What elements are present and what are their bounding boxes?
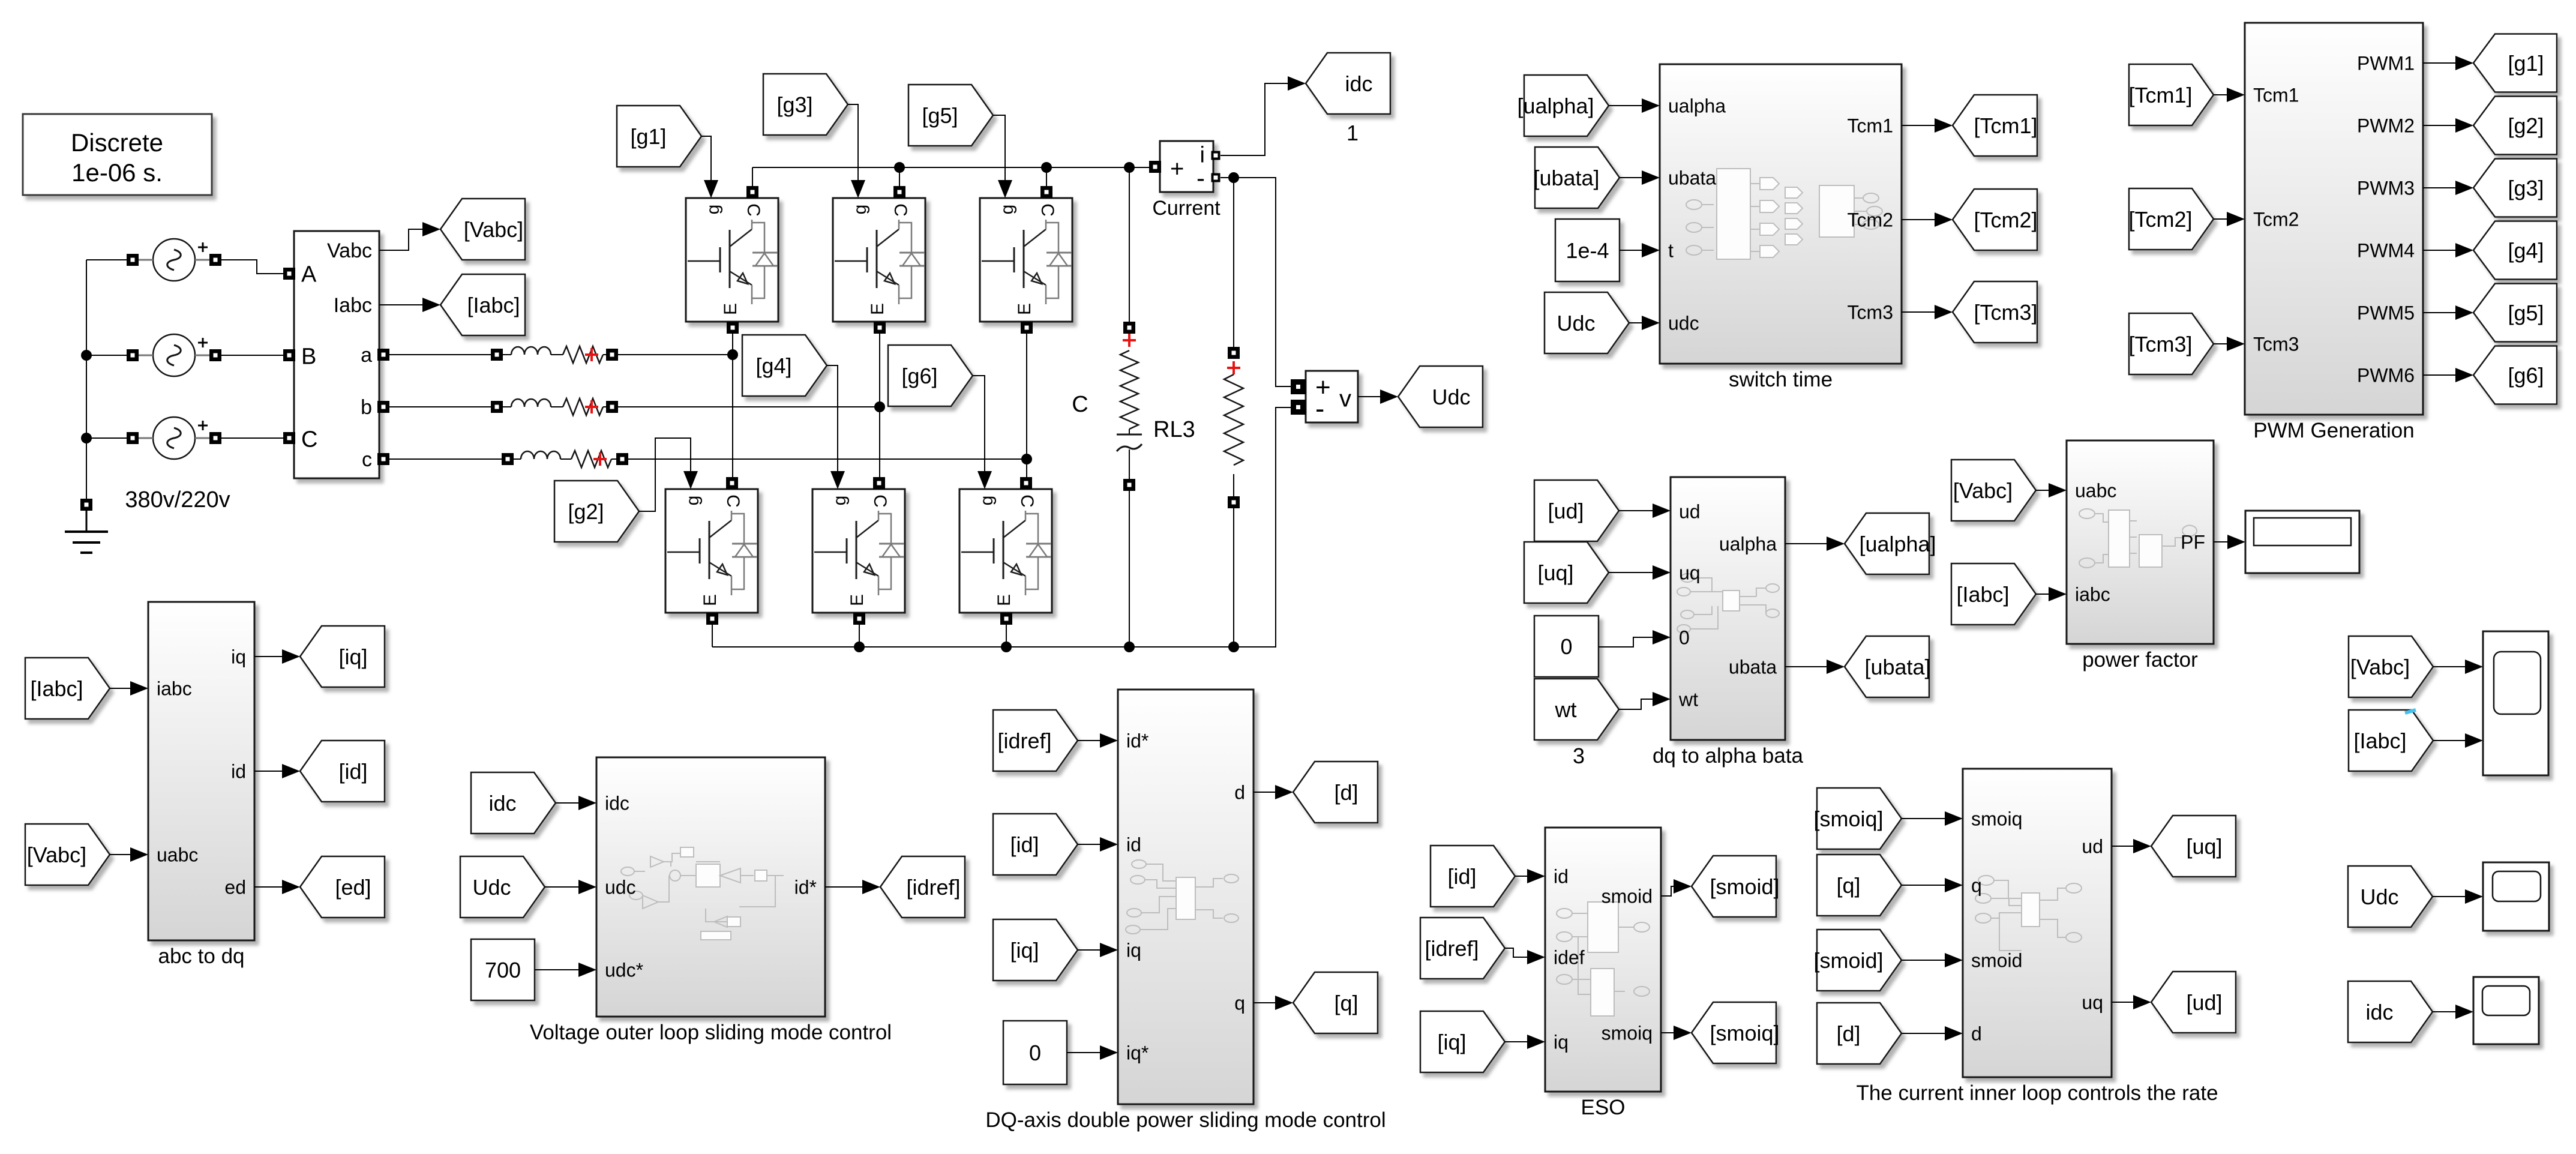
svg-text:1: 1: [1347, 121, 1359, 145]
wire block-c to RL: [388, 458, 503, 460]
svg-text:[Tcm2]: [Tcm2]: [2128, 207, 2192, 232]
goto tag [g3]: [2473, 159, 2557, 217]
svg-text:iq*: iq*: [1126, 1042, 1148, 1064]
svg-text:PWM6: PWM6: [2357, 365, 2415, 386]
svg-text:d: d: [1234, 782, 1245, 804]
current measurement block: [1149, 141, 1220, 220]
svg-text:a: a: [361, 344, 372, 367]
node neutral-B: [81, 350, 92, 361]
goto tag [q]: [1293, 972, 1378, 1033]
from tag [g2]: [554, 481, 639, 542]
wire smoid out: [1661, 879, 1692, 896]
svg-text:[Vabc]: [Vabc]: [2350, 655, 2410, 679]
svg-text:PWM3: PWM3: [2357, 178, 2415, 199]
svg-text:[id]: [id]: [1010, 832, 1039, 857]
node phase-b leg2: [874, 401, 885, 412]
load resistor branch: [1224, 178, 1243, 647]
svg-text:v: v: [1339, 385, 1351, 412]
wire idref out: [825, 880, 880, 894]
wire id to eso: [1515, 869, 1545, 883]
wire DC- bottom rail: [712, 407, 1291, 647]
svg-text:q: q: [1234, 993, 1245, 1014]
svg-text:380v/220v: 380v/220v: [125, 487, 230, 512]
wire Vabc to pf: [2036, 483, 2067, 497]
AC voltage source Vb: [127, 334, 221, 376]
svg-text:Tcm3: Tcm3: [2253, 334, 2299, 355]
svg-text:id: id: [231, 761, 246, 783]
wire RL-b to leg2: [617, 406, 880, 407]
wire smoiq out: [1661, 1026, 1692, 1040]
wire g6 gate: [973, 376, 992, 489]
svg-text:PWM Generation: PWM Generation: [2253, 419, 2414, 442]
svg-text:The current inner loop control: The current inner loop controls the rate: [1856, 1081, 2218, 1105]
svg-text:Udc: Udc: [472, 875, 511, 900]
svg-text:C: C: [1072, 392, 1088, 417]
wire Tcm3 to PWM: [2214, 337, 2245, 351]
wire Tcm3 out: [1902, 305, 1953, 319]
svg-text:0: 0: [1029, 1041, 1041, 1065]
svg-text:[Iabc]: [Iabc]: [1956, 582, 2009, 607]
from tag [ubata] (switch time): [1533, 147, 1620, 208]
svg-text:3: 3: [1573, 744, 1585, 768]
svg-text:idc: idc: [1345, 71, 1372, 96]
node minus-load: [1228, 172, 1239, 183]
wire g4 gate: [827, 365, 845, 489]
wire PWM4 out: [2423, 243, 2473, 257]
constant 700: [471, 939, 535, 1000]
DQ-axis port labels: [1126, 730, 1245, 1064]
svg-text:wt: wt: [1678, 689, 1698, 711]
goto tag [Tcm1]: [1953, 95, 2038, 156]
from tag Udc (switch time): [1545, 292, 1629, 353]
wire Udc to vloop: [545, 880, 596, 894]
wire wt to port: [1619, 692, 1671, 709]
svg-text:d: d: [1971, 1023, 1982, 1045]
wire Tcm2 out: [1902, 212, 1953, 227]
svg-text:[Iabc]: [Iabc]: [467, 293, 520, 317]
svg-text:[ualpha]: [ualpha]: [1859, 532, 1936, 556]
svg-text:C: C: [723, 494, 743, 508]
from tag [ud]: [1534, 480, 1619, 541]
svg-text:[Tcm3]: [Tcm3]: [2128, 332, 2192, 356]
from tag [g6]: [888, 345, 973, 406]
subsystem abc to dq: [148, 602, 254, 968]
svg-text:Discrete: Discrete: [71, 128, 163, 157]
svg-text:uabc: uabc: [157, 844, 198, 866]
wire current i to idc goto: [1220, 76, 1306, 155]
from tag [Iabc] (pf): [1951, 563, 2036, 625]
svg-text:ud: ud: [1679, 501, 1701, 523]
wire ud in: [1619, 503, 1671, 518]
node rail-leg3: [1041, 162, 1052, 173]
svg-text:-: -: [1315, 393, 1324, 424]
from tag [ualpha] (switch time): [1517, 75, 1609, 136]
svg-text:ESO: ESO: [1581, 1096, 1626, 1119]
svg-text:g: g: [703, 205, 723, 215]
from tag [smoiq] (il): [1813, 788, 1902, 849]
svg-text:B: B: [301, 344, 316, 370]
wire iq to eso: [1505, 1035, 1545, 1049]
svg-text:A: A: [301, 262, 317, 287]
dq2ab port labels: [1678, 501, 1777, 711]
svg-text:0: 0: [1560, 634, 1572, 659]
wire Tcm1 to PWM: [2214, 88, 2245, 102]
from tag [smoid] (il): [1813, 930, 1902, 991]
svg-text:Tcm2: Tcm2: [1848, 209, 1893, 231]
label C: [1072, 392, 1088, 417]
wire idref to dq: [1078, 733, 1118, 748]
wire RL-a to leg1: [617, 354, 733, 355]
svg-text:wt: wt: [1555, 697, 1577, 722]
wire block-b to RL: [388, 406, 492, 407]
svg-text:[g3]: [g3]: [776, 92, 812, 117]
svg-text:ud: ud: [2082, 836, 2103, 858]
abc2dq port labels: [157, 646, 246, 898]
goto tag [id]: [300, 741, 385, 802]
goto tag Udc: [1398, 366, 1483, 427]
svg-text:E: E: [994, 594, 1014, 606]
svg-text:[idref]: [idref]: [997, 729, 1051, 753]
goto tag [ualpha]: [1845, 513, 1936, 574]
from tag [Iabc] (scope): [2349, 710, 2433, 771]
wire smoid to il: [1902, 953, 1963, 967]
ground: [65, 499, 108, 553]
from tag idc (scope): [2348, 981, 2433, 1042]
svg-text:[smoid]: [smoid]: [1813, 948, 1883, 973]
subsystem voltage outer loop: [530, 757, 892, 1044]
svg-text:[smoiq]: [smoiq]: [1813, 807, 1883, 831]
svg-text:C: C: [301, 427, 317, 452]
svg-text:[Tcm2]: [Tcm2]: [1974, 208, 2037, 232]
svg-text:[Vabc]: [Vabc]: [27, 843, 86, 867]
svg-text:PWM4: PWM4: [2357, 240, 2415, 262]
svg-text:dq to alpha bata: dq to alpha bata: [1653, 744, 1804, 768]
svg-text:ed: ed: [224, 877, 246, 898]
svg-text:Voltage outer loop sliding mod: Voltage outer loop sliding mode control: [530, 1021, 892, 1044]
svg-text:id: id: [1554, 866, 1569, 888]
goto tag [g5]: [2473, 284, 2557, 342]
IGBT/Diode Q4: [812, 477, 905, 625]
svg-text:idc: idc: [488, 791, 516, 816]
goto tag [Iabc]: [440, 274, 525, 335]
from tag [Iabc] (abc2dq): [25, 658, 110, 719]
svg-text:[ualpha]: [ualpha]: [1517, 94, 1594, 118]
wire 700 to vloop: [535, 963, 596, 977]
goto tag [idref]: [880, 856, 965, 918]
svg-text:[q]: [q]: [1334, 991, 1358, 1015]
from tag [d] (il): [1817, 1003, 1902, 1064]
svg-text:[Vabc]: [Vabc]: [464, 217, 523, 242]
wire Iabc to goto: [379, 298, 440, 312]
goto tag idc: [1306, 53, 1390, 145]
svg-text:[ud]: [ud]: [1548, 499, 1584, 523]
from tag idc (vloop): [471, 772, 556, 834]
svg-text:uabc: uabc: [2075, 480, 2116, 502]
ESO inner sketch: [1557, 902, 1650, 1016]
constant 1e-4: [1555, 219, 1620, 281]
wire udc in: [1629, 316, 1660, 330]
svg-text:t: t: [1668, 240, 1674, 262]
from tag [id] (eso): [1431, 846, 1515, 907]
node neutral-C: [81, 433, 92, 443]
from tag [idref] (dq): [993, 710, 1078, 771]
wire ubata out: [1785, 660, 1845, 674]
node bottomrail-RL3: [1124, 642, 1135, 652]
goto tag [uq] (il out): [2151, 816, 2236, 877]
svg-text:iabc: iabc: [157, 678, 192, 700]
goto tag [ed]: [300, 856, 385, 918]
svg-text:switch time: switch time: [1729, 368, 1833, 391]
wire leg2 vertical: [880, 167, 899, 478]
svg-text:C: C: [743, 203, 763, 217]
svg-text:Tcm2: Tcm2: [2253, 209, 2299, 230]
svg-text:[g1]: [g1]: [630, 124, 666, 149]
wire v to Udc goto: [1358, 389, 1398, 404]
svg-text:[uq]: [uq]: [1537, 560, 1573, 585]
svg-text:Current: Current: [1152, 197, 1220, 220]
from tag [Vabc] (abc2dq): [25, 824, 110, 885]
goto tag [Tcm2]: [1953, 189, 2038, 250]
wire neutral bus: [86, 260, 128, 500]
goto tag [d]: [1293, 762, 1378, 823]
svg-text:power factor: power factor: [2082, 648, 2198, 672]
svg-text:0: 0: [1679, 627, 1690, 649]
node phase-a leg1: [727, 349, 738, 360]
wire iq out: [254, 649, 300, 664]
wire PWM3 out: [2423, 181, 2473, 195]
wire q to il: [1902, 878, 1963, 892]
svg-text:smoid: smoid: [1971, 950, 2022, 972]
svg-text:[ubata]: [ubata]: [1864, 655, 1930, 679]
svg-text:udc: udc: [605, 877, 636, 898]
svg-text:idc: idc: [605, 793, 629, 814]
wire id out: [254, 764, 300, 778]
inner loop port labels: [1971, 808, 2103, 1045]
wire Iabc to pf: [2036, 587, 2067, 601]
wire current minus: [1220, 178, 1296, 386]
series RLC branch RL3: [1117, 167, 1142, 647]
svg-text:E: E: [868, 303, 887, 315]
goto tag [smoid]: [1692, 856, 1780, 917]
wire q out: [1253, 996, 1293, 1010]
svg-text:DQ-axis double power sliding m: DQ-axis double power sliding mode contro…: [985, 1108, 1386, 1132]
node rail-leg2: [894, 162, 905, 173]
svg-text:[idref]: [idref]: [906, 875, 960, 900]
wire Iabc to abc2dq: [110, 681, 148, 696]
svg-text:udc*: udc*: [605, 960, 643, 981]
goto tag [smoiq]: [1692, 1002, 1780, 1063]
svg-text:smoiq: smoiq: [1602, 1023, 1653, 1044]
svg-text:-: -: [1196, 164, 1205, 192]
wire ualpha out: [1785, 536, 1845, 551]
svg-text:E: E: [700, 594, 720, 606]
from tag [id] (dq): [993, 814, 1078, 875]
svg-text:C: C: [1037, 203, 1057, 217]
svg-text:uq: uq: [2082, 992, 2103, 1014]
voltage outer port labels: [605, 793, 817, 981]
from tag [iq] (eso): [1420, 1011, 1505, 1072]
svg-text:[g4]: [g4]: [2508, 238, 2544, 263]
wire 1e-4 to t: [1620, 243, 1660, 257]
from tag [idref] (eso): [1420, 918, 1505, 979]
wire Vc to port C: [219, 437, 284, 439]
wire d to il: [1902, 1026, 1963, 1041]
svg-text:[g6]: [g6]: [901, 364, 937, 388]
svg-text:[smoiq]: [smoiq]: [1710, 1021, 1779, 1045]
svg-text:Udc: Udc: [1557, 311, 1595, 335]
wire Vabc to scope: [2433, 660, 2483, 674]
wire PWM1 out: [2423, 56, 2473, 70]
wire ud out: [2112, 839, 2151, 853]
svg-text:[g3]: [g3]: [2508, 176, 2544, 200]
svg-text:C: C: [870, 494, 890, 508]
wire PWM6 out: [2423, 368, 2473, 382]
wire smoiq to il: [1902, 811, 1963, 826]
svg-text:[Iabc]: [Iabc]: [2353, 729, 2406, 753]
wire uq out: [2112, 995, 2151, 1009]
label 380v/220v: [125, 487, 230, 512]
wire block-a to RL: [388, 354, 492, 355]
wire DC+ top rail: [752, 167, 1150, 168]
svg-text:id*: id*: [794, 877, 817, 898]
svg-text:[g1]: [g1]: [2508, 51, 2544, 76]
power factor port labels: [2075, 480, 2205, 606]
svg-text:ubata: ubata: [1668, 167, 1716, 189]
svg-text:E: E: [1015, 303, 1034, 315]
from tag [q] (il): [1817, 855, 1902, 916]
svg-text:abc to dq: abc to dq: [158, 945, 245, 968]
power factor inner sketch: [2079, 509, 2197, 568]
subsystem current inner loop: [1856, 769, 2218, 1105]
wire RL-c to leg3: [627, 458, 1027, 460]
wire id to dq: [1078, 837, 1118, 852]
wire uq in: [1609, 565, 1671, 580]
svg-text:Tcm1: Tcm1: [2253, 85, 2299, 106]
svg-text:[g2]: [g2]: [2508, 113, 2544, 138]
from tag [Vabc] (pf): [1951, 460, 2036, 521]
wire leg1 vertical: [733, 167, 752, 478]
svg-text:1e-4: 1e-4: [1566, 238, 1609, 263]
scope Udc: [2483, 862, 2549, 931]
DQ-axis inner sketch: [1126, 860, 1238, 934]
svg-text:[g2]: [g2]: [568, 499, 604, 524]
scope Vabc-Iabc: [2483, 631, 2548, 775]
svg-text:c: c: [362, 448, 372, 471]
svg-text:Iabc: Iabc: [334, 294, 372, 317]
goto tag [ubata]: [1845, 636, 1931, 697]
svg-text:[Iabc]: [Iabc]: [30, 676, 83, 701]
svg-text:[iq]: [iq]: [338, 645, 367, 669]
wire E legs to bottom rail: [712, 624, 1006, 647]
from tag [g3]: [763, 74, 848, 135]
subsystem switch time: [1660, 64, 1902, 391]
series RL branch phase b: [491, 398, 618, 415]
svg-text:[Tcm3]: [Tcm3]: [1974, 300, 2037, 325]
svg-text:q: q: [1971, 875, 1982, 897]
wire Tcm1 out: [1902, 118, 1953, 133]
svg-text:id*: id*: [1126, 730, 1148, 752]
goto tag [iq]: [300, 626, 385, 687]
svg-text:[iq]: [iq]: [1437, 1030, 1466, 1054]
svg-text:iq: iq: [1554, 1032, 1569, 1053]
svg-text:g: g: [683, 496, 703, 506]
wire Tcm2 to PWM: [2214, 212, 2245, 226]
svg-text:iq: iq: [1126, 940, 1141, 961]
svg-text:[d]: [d]: [1836, 1021, 1860, 1046]
IGBT/Diode Q2: [665, 477, 758, 625]
svg-text:iabc: iabc: [2075, 584, 2110, 606]
from tag Udc (vloop): [460, 856, 545, 918]
svg-text:[g5]: [g5]: [2508, 301, 2544, 325]
svg-text:[g5]: [g5]: [922, 103, 958, 128]
wire Vabc to goto: [379, 222, 440, 250]
constant 0 (dq2ab): [1534, 616, 1599, 677]
svg-text:g: g: [830, 496, 850, 506]
goto tag [g6]: [2473, 346, 2557, 404]
subsystem power factor: [2067, 440, 2214, 672]
from tag [Tcm3] (PWM): [2128, 313, 2214, 374]
svg-text:Vabc: Vabc: [327, 239, 372, 262]
switch time port labels: [1668, 95, 1893, 334]
wire idc to scope: [2433, 1005, 2473, 1019]
svg-text:smoiq: smoiq: [1971, 808, 2022, 830]
svg-text:RL3: RL3: [1153, 417, 1195, 442]
AC voltage source Va: [127, 239, 221, 281]
wire Iabc to scope: [2433, 733, 2483, 748]
wire PWM2 out: [2423, 118, 2473, 133]
svg-text:[g4]: [g4]: [755, 353, 791, 378]
svg-text:[ed]: [ed]: [335, 875, 371, 900]
voltage outer inner sketch: [621, 847, 784, 940]
from tag [g1]: [617, 106, 701, 167]
from tag [Vabc] (scope): [2349, 636, 2433, 697]
svg-text:g: g: [977, 496, 997, 506]
goto tag [ud] (il out): [2151, 972, 2236, 1033]
wire Vb to port B: [219, 355, 284, 356]
svg-text:[ud]: [ud]: [2186, 990, 2222, 1015]
goto tag [Vabc]: [440, 199, 525, 260]
svg-text:Udc: Udc: [1432, 385, 1470, 409]
wire g1 gate: [701, 136, 718, 198]
node bottomrail-leg2: [854, 642, 865, 652]
svg-text:[iq]: [iq]: [1010, 938, 1039, 963]
from tag wt: [1534, 679, 1619, 768]
goto tag [g4]: [2473, 221, 2557, 280]
wire ualpha in: [1609, 98, 1660, 113]
wire Va to port A: [219, 260, 284, 274]
svg-text:C: C: [890, 203, 910, 217]
from tag Udc (scope): [2348, 866, 2433, 927]
svg-text:idc: idc: [2365, 1000, 2393, 1024]
goto tag [g1]: [2473, 34, 2557, 92]
svg-text:smoid: smoid: [1602, 886, 1653, 907]
glitch cyan mark: [2405, 710, 2416, 713]
series RL branch phase c: [502, 451, 628, 467]
svg-text:ualpha: ualpha: [1719, 533, 1777, 555]
switch time inner sketch: [1686, 169, 1882, 259]
svg-text:+: +: [1170, 155, 1184, 182]
IGBT/Diode Q6: [959, 477, 1052, 625]
wire g2 gate: [639, 438, 698, 511]
svg-text:Tcm3: Tcm3: [1848, 302, 1893, 323]
svg-text:id: id: [1126, 834, 1141, 856]
svg-text:[smoid]: [smoid]: [1710, 874, 1779, 899]
dq2ab inner sketch: [1677, 574, 1779, 633]
svg-text:[Tcm1]: [Tcm1]: [1974, 113, 2037, 138]
svg-text:[Vabc]: [Vabc]: [1953, 478, 2013, 503]
svg-text:PWM1: PWM1: [2357, 53, 2415, 74]
svg-text:[q]: [q]: [1836, 873, 1860, 898]
